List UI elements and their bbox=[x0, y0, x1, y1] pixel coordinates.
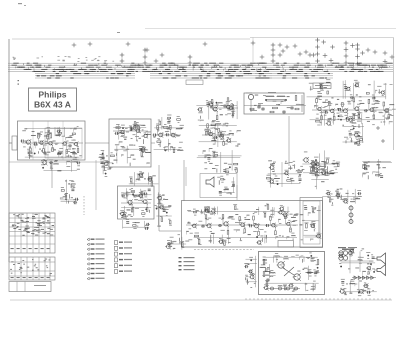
svg-text:Philips: Philips bbox=[38, 90, 66, 100]
svg-text:B6X 43 A: B6X 43 A bbox=[34, 100, 71, 110]
